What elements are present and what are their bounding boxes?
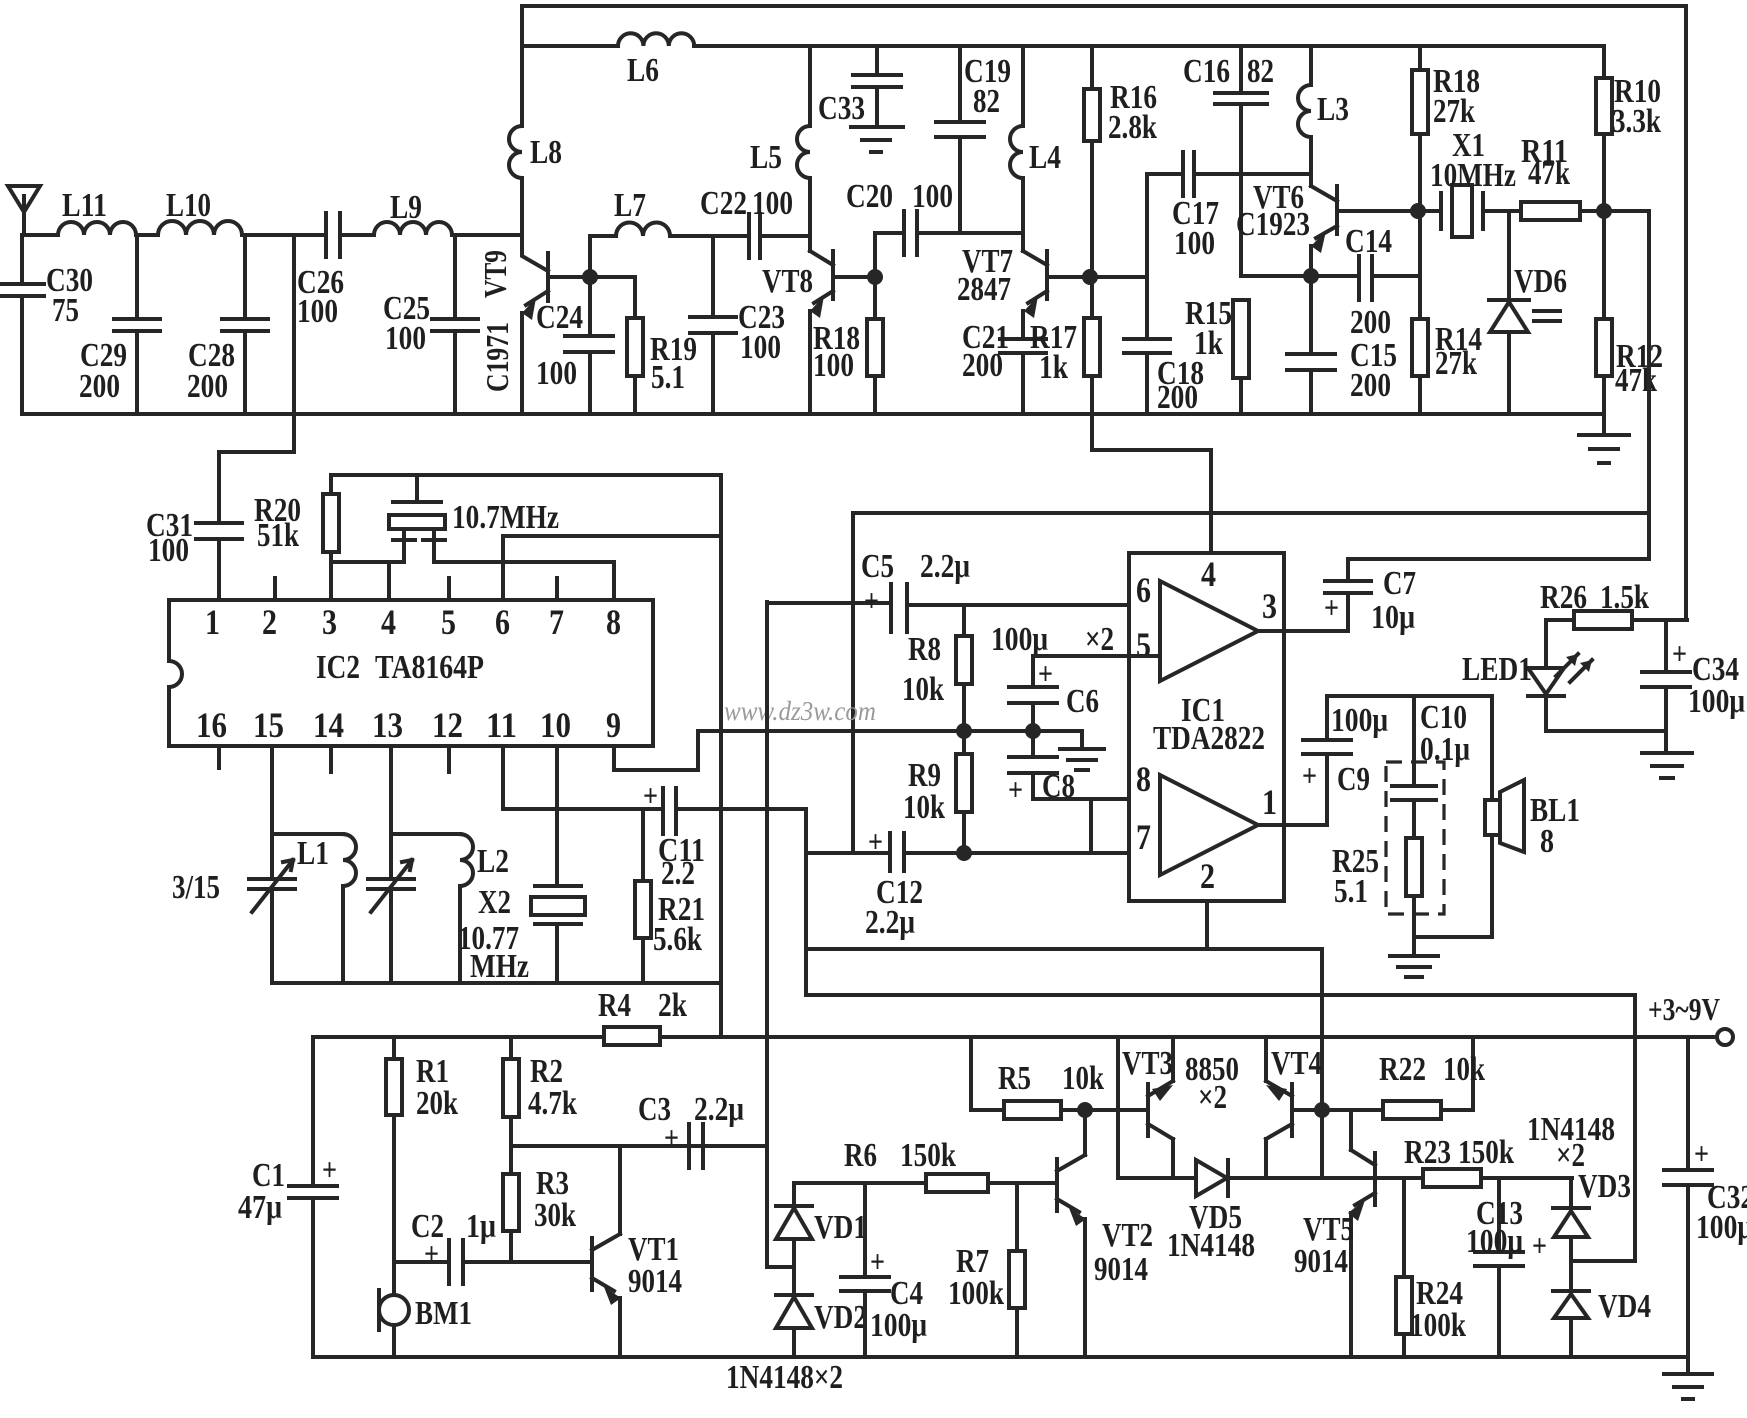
capacitor C1 — [289, 1186, 337, 1357]
svg-text:10MHz: 10MHz — [1430, 157, 1516, 194]
svg-text:VD1: VD1 — [814, 1209, 867, 1246]
inductor L8 — [509, 126, 522, 178]
svg-text:IC2: IC2 — [316, 649, 360, 686]
wire bottom rail — [313, 1355, 1688, 1359]
svg-text:5.1: 5.1 — [651, 359, 685, 396]
svg-text:100μ: 100μ — [1331, 702, 1388, 739]
svg-text:2.2μ: 2.2μ — [920, 548, 970, 585]
capacitor C21 — [1000, 339, 1046, 414]
inductor L5 — [797, 46, 810, 251]
capacitor C19 — [936, 46, 984, 233]
transistor VT4 — [1266, 1037, 1322, 1178]
svg-text:8: 8 — [1540, 823, 1554, 860]
svg-text:C5: C5 — [861, 548, 894, 585]
svg-text:150k: 150k — [1458, 1134, 1514, 1171]
svg-text:30k: 30k — [534, 1197, 576, 1234]
capacitor C4 — [841, 1183, 889, 1357]
svg-text:R22: R22 — [1379, 1051, 1426, 1088]
node VT6 emitter — [1303, 268, 1319, 284]
capacitor C25 — [432, 235, 478, 414]
svg-text:+: + — [1532, 1227, 1547, 1263]
svg-text:1k: 1k — [1194, 325, 1223, 362]
svg-text:10k: 10k — [903, 789, 945, 826]
svg-text:100: 100 — [752, 185, 793, 222]
terminal +3~9V — [1717, 1029, 1733, 1045]
wire C3 to diodes — [767, 602, 794, 1267]
capacitor C29 — [114, 235, 160, 414]
svg-text:+: + — [1694, 1135, 1709, 1171]
inductor L3 — [1298, 46, 1311, 186]
resistor R24 — [1402, 1178, 1406, 1357]
svg-text:L11: L11 — [62, 187, 107, 224]
wire R20 top rail — [331, 475, 721, 1037]
svg-text:7: 7 — [549, 602, 564, 642]
inductor L7 — [590, 236, 749, 277]
transistor VT9 — [522, 178, 590, 305]
svg-text:×2: ×2 — [1556, 1137, 1585, 1174]
capacitor C6 — [1009, 656, 1057, 731]
svg-text:1: 1 — [1262, 782, 1277, 822]
node VT4 base — [1314, 1102, 1330, 1118]
node VT7 base — [1082, 269, 1098, 285]
tank L2 with trimmer — [368, 746, 414, 983]
capacitor C11 — [663, 788, 806, 834]
capacitor C10 — [1392, 696, 1436, 800]
tank L1 with trimmer — [249, 746, 295, 983]
transistor VT3 — [1118, 1037, 1173, 1178]
pin12 stub — [447, 746, 451, 772]
svg-text:1.5k: 1.5k — [1600, 579, 1649, 616]
svg-text:100k: 100k — [1410, 1307, 1466, 1344]
resistor R12 — [1602, 211, 1606, 414]
svg-text:100μ: 100μ — [1466, 1223, 1523, 1260]
svg-text:200: 200 — [1350, 367, 1391, 404]
wire VT1 collector row — [511, 1144, 767, 1148]
capacitor C12 — [806, 833, 1160, 871]
node C6 bottom — [1025, 723, 1041, 739]
transistor VT5 — [1322, 1110, 1375, 1205]
ground speaker — [1390, 937, 1438, 977]
node R11 right — [1596, 203, 1612, 219]
svg-text:2k: 2k — [658, 987, 687, 1024]
wire pin9 jog — [614, 731, 1082, 770]
IC1 TDA2822 — [1129, 553, 1284, 901]
pin2 stub — [273, 578, 277, 600]
svg-text:L2: L2 — [477, 843, 509, 880]
wire tank bottom rail — [272, 981, 721, 985]
svg-text:C22: C22 — [700, 185, 747, 222]
resistor R18 27k — [1418, 46, 1422, 211]
svg-text:2847: 2847 — [957, 271, 1011, 308]
svg-text:200: 200 — [1157, 379, 1198, 416]
svg-text:2.8k: 2.8k — [1108, 109, 1157, 146]
resistor R6 — [926, 1174, 988, 1192]
svg-text:4: 4 — [1201, 554, 1216, 594]
diode VD4 — [1553, 1261, 1589, 1357]
svg-text:+: + — [870, 1243, 885, 1279]
svg-text:10: 10 — [540, 705, 571, 745]
svg-text:100: 100 — [148, 532, 189, 569]
capacitor C3 — [689, 1124, 703, 1168]
svg-text:75: 75 — [52, 292, 79, 329]
svg-text:47μ: 47μ — [238, 1189, 282, 1226]
resistor R26 — [1546, 618, 1687, 622]
resistor R19 — [590, 277, 635, 414]
IC2 TA8164P — [169, 600, 653, 746]
svg-text:R23: R23 — [1404, 1134, 1451, 1171]
pin14 stub — [329, 746, 333, 772]
capacitor C15 — [1287, 276, 1335, 414]
svg-text:3: 3 — [1262, 586, 1277, 626]
svg-text:VD6: VD6 — [1514, 263, 1567, 300]
svg-text:9: 9 — [606, 705, 621, 745]
microphone BM1 — [392, 1262, 396, 1295]
svg-text:3: 3 — [322, 602, 337, 642]
svg-text:www.dz3w.com: www.dz3w.com — [724, 696, 876, 726]
svg-text:C14: C14 — [1345, 223, 1392, 260]
svg-text:+: + — [864, 582, 879, 618]
svg-text:5.6k: 5.6k — [653, 921, 702, 958]
capacitor C31 — [196, 523, 242, 600]
svg-text:27k: 27k — [1433, 93, 1475, 130]
svg-text:3/15: 3/15 — [172, 869, 220, 906]
resistor R15 — [1239, 378, 1243, 414]
resistor R14 — [1418, 211, 1422, 414]
inductor L10 — [158, 221, 242, 235]
svg-text:+: + — [1324, 589, 1339, 625]
svg-text:C33: C33 — [818, 90, 865, 127]
resistor R11 — [1521, 202, 1580, 220]
svg-text:+: + — [1008, 771, 1023, 807]
wire left border — [311, 1037, 315, 1186]
capacitor C2 — [394, 1240, 592, 1284]
svg-text:9014: 9014 — [628, 1263, 682, 1300]
resistor R17 — [1092, 277, 1211, 553]
svg-text:L10: L10 — [166, 187, 211, 224]
speaker BL1 — [1485, 800, 1500, 835]
svg-text:100: 100 — [1174, 225, 1215, 262]
svg-text:C9: C9 — [1337, 761, 1370, 798]
svg-text:20k: 20k — [416, 1085, 458, 1122]
capacitor C9 — [1303, 696, 1351, 825]
capacitor C13 — [1475, 1178, 1523, 1357]
capacitor C32 — [1664, 1037, 1712, 1357]
svg-text:14: 14 — [313, 705, 344, 745]
wire pin6 jog — [503, 536, 721, 600]
ground bottom right — [1664, 1357, 1712, 1399]
resistor R3 — [509, 1231, 513, 1262]
svg-text:100k: 100k — [948, 1275, 1004, 1312]
wire C31 feed — [219, 235, 294, 523]
svg-text:11: 11 — [486, 705, 517, 745]
crystal X1 — [1418, 193, 1521, 229]
diode VD6 — [1489, 211, 1529, 414]
svg-text:L6: L6 — [627, 52, 659, 89]
wire C12 feed — [804, 809, 808, 995]
resistor R16 — [1090, 46, 1094, 277]
capacitor C28 — [222, 235, 268, 414]
dashed box R25/C10 — [1386, 762, 1444, 914]
capacitor C26 — [326, 213, 340, 257]
svg-text:200: 200 — [79, 368, 120, 405]
svg-text:+: + — [1672, 635, 1687, 671]
svg-text:1N4148: 1N4148 — [1167, 1227, 1255, 1264]
svg-text:MHz: MHz — [470, 948, 529, 985]
transistor VT7 — [1023, 251, 1090, 303]
crystal X2 — [535, 746, 581, 983]
svg-text:TDA2822: TDA2822 — [1153, 720, 1265, 757]
svg-text:4.7k: 4.7k — [528, 1085, 577, 1122]
svg-text:2: 2 — [1200, 856, 1215, 896]
wire audio to output stage — [806, 949, 1322, 1178]
svg-text:C3: C3 — [638, 1091, 671, 1128]
svg-text:+: + — [643, 777, 658, 813]
svg-text:2.2μ: 2.2μ — [865, 904, 915, 941]
svg-text:8: 8 — [1136, 759, 1151, 799]
svg-text:R4: R4 — [598, 987, 631, 1024]
resistor R18 100 — [873, 277, 877, 414]
svg-text:L8: L8 — [530, 134, 562, 171]
svg-text:100: 100 — [813, 347, 854, 384]
svg-text:×2: ×2 — [1085, 621, 1114, 658]
svg-text:+: + — [868, 823, 883, 859]
svg-text:L5: L5 — [750, 139, 782, 176]
capacitor C22 — [749, 214, 809, 258]
svg-text:9014: 9014 — [1094, 1251, 1148, 1288]
wire VD1 top row — [794, 1181, 926, 1185]
svg-text:27k: 27k — [1435, 345, 1477, 382]
wire second rail left — [522, 6, 618, 126]
resistor R9 — [962, 731, 966, 853]
pin16 stub — [217, 746, 221, 768]
svg-text:VD2: VD2 — [814, 1299, 867, 1336]
svg-text:100: 100 — [912, 178, 953, 215]
antenna — [8, 186, 40, 235]
svg-text:51k: 51k — [257, 517, 299, 554]
wire pin5 — [1033, 654, 1160, 658]
capacitor C20 — [875, 211, 1023, 277]
svg-text:×2: ×2 — [1198, 1079, 1227, 1116]
svg-text:LED1: LED1 — [1462, 651, 1532, 688]
pin7 stub — [555, 578, 559, 600]
svg-text:C20: C20 — [846, 178, 893, 215]
svg-text:VT8: VT8 — [762, 263, 813, 300]
svg-text:12: 12 — [432, 705, 463, 745]
resistor R7 — [1015, 1183, 1019, 1357]
resistor R21 — [641, 809, 645, 983]
wire LED bottom — [1546, 729, 1666, 733]
wire pin8 jog — [1089, 799, 1093, 853]
resistor R4 — [604, 1027, 660, 1045]
svg-text:C6: C6 — [1066, 683, 1099, 720]
svg-text:BL1: BL1 — [1530, 792, 1580, 829]
capacitor C5 — [767, 584, 1160, 632]
wire speaker top — [1327, 696, 1492, 800]
svg-text:VT3: VT3 — [1122, 1045, 1173, 1082]
svg-text:VT4: VT4 — [1271, 1045, 1322, 1082]
svg-text:4: 4 — [381, 602, 396, 642]
diode VD2 — [776, 1267, 812, 1357]
svg-text:7: 7 — [1136, 817, 1151, 857]
wire to AGC right — [1604, 211, 1649, 559]
resistor R20 — [329, 475, 333, 600]
capacitor C14 — [1241, 256, 1420, 300]
svg-text:X2: X2 — [478, 884, 511, 921]
capacitor C7 — [1325, 559, 1371, 631]
svg-text:C7: C7 — [1383, 565, 1416, 602]
capacitor C8 — [1009, 731, 1160, 799]
resistor R2 — [509, 1037, 513, 1174]
svg-text:100μ: 100μ — [1688, 683, 1745, 720]
pin5 stub — [447, 578, 451, 600]
svg-text:R8: R8 — [908, 631, 941, 668]
svg-text:BM1: BM1 — [415, 1295, 472, 1332]
svg-text:10μ: 10μ — [1371, 599, 1415, 636]
svg-text:47k: 47k — [1528, 155, 1570, 192]
resistor R23 — [1375, 1176, 1572, 1180]
wire pin1 out — [1258, 823, 1327, 827]
svg-text:C1971: C1971 — [479, 322, 515, 392]
wire RF ground rail — [22, 412, 1604, 416]
transistor VT6 — [1311, 186, 1418, 238]
ground RF right — [1579, 414, 1629, 463]
inductor L4 — [1010, 46, 1023, 251]
resistor R1 — [392, 1037, 396, 1262]
svg-text:100: 100 — [740, 329, 781, 366]
wire filter bottom right to pin8 — [434, 562, 614, 600]
inductor L6 — [618, 33, 694, 46]
wire long feedback — [853, 511, 1649, 515]
svg-text:10k: 10k — [1062, 1060, 1104, 1097]
svg-text:3.3k: 3.3k — [1612, 103, 1661, 140]
diode VD3 — [1553, 1178, 1635, 1261]
svg-text:82: 82 — [1247, 53, 1274, 90]
node VT8 base — [867, 269, 883, 285]
svg-text:13: 13 — [372, 705, 403, 745]
svg-text:10.7MHz: 10.7MHz — [452, 499, 559, 536]
capacitor C33 — [853, 46, 901, 127]
resistor R22 — [1322, 1037, 1473, 1110]
svg-text:15: 15 — [253, 705, 284, 745]
node VT6 base X1 — [1410, 203, 1426, 219]
LED LED1 — [1528, 620, 1564, 731]
resistor R5 — [971, 1037, 1148, 1110]
svg-text:10k: 10k — [1443, 1051, 1485, 1088]
node VT9 base — [582, 269, 598, 285]
svg-text:82: 82 — [973, 83, 1000, 120]
svg-text:R6: R6 — [844, 1137, 877, 1174]
inductor L9 — [374, 222, 452, 235]
capacitor C18 — [1124, 277, 1170, 414]
ground C34 — [1642, 731, 1692, 778]
ground small near C8 — [1060, 731, 1104, 770]
resistor R25 — [1412, 800, 1416, 937]
wire mute line — [806, 995, 1635, 1261]
svg-text:1N4148×2: 1N4148×2 — [726, 1359, 843, 1396]
wire second rail right — [694, 44, 1604, 48]
svg-text:100μ: 100μ — [870, 1307, 927, 1344]
capacitor C24 — [565, 277, 613, 414]
svg-text:6: 6 — [1136, 570, 1151, 610]
node R9 bottom — [956, 845, 972, 861]
svg-text:VD4: VD4 — [1598, 1288, 1651, 1325]
svg-text:L7: L7 — [614, 187, 646, 224]
transistor VT2 — [1057, 1110, 1085, 1212]
diode VD1 — [776, 1183, 812, 1267]
wire RF input chain — [22, 233, 522, 237]
wire mid junction vertical — [851, 513, 855, 853]
transistor VT1 — [592, 1146, 620, 1291]
svg-text:8: 8 — [606, 602, 621, 642]
svg-text:R26: R26 — [1540, 579, 1587, 616]
svg-text:VT2: VT2 — [1102, 1217, 1153, 1254]
svg-text:100: 100 — [536, 355, 577, 392]
svg-text:R5: R5 — [998, 1060, 1031, 1097]
svg-text:C16: C16 — [1183, 53, 1230, 90]
svg-text:5: 5 — [441, 602, 456, 642]
svg-text:+: + — [1038, 655, 1053, 691]
svg-text:2.2μ: 2.2μ — [694, 1091, 744, 1128]
diode VD5 — [1118, 1160, 1322, 1196]
wire filter bottom left — [331, 562, 404, 600]
svg-text:2.2: 2.2 — [661, 855, 695, 892]
svg-text:L3: L3 — [1317, 91, 1349, 128]
svg-text:1: 1 — [205, 602, 220, 642]
wire C7 top — [1348, 513, 1649, 559]
svg-text:+3~9V: +3~9V — [1648, 991, 1720, 1027]
svg-text:100μ: 100μ — [991, 621, 1048, 658]
svg-text:+: + — [1302, 757, 1317, 793]
wire supply rail — [313, 1035, 1718, 1039]
svg-text:9014: 9014 — [1294, 1243, 1348, 1280]
svg-text:L4: L4 — [1029, 139, 1061, 176]
svg-text:100μ: 100μ — [1696, 1209, 1747, 1246]
svg-text:2: 2 — [262, 602, 277, 642]
resistor R8 — [962, 605, 966, 731]
svg-text:C24: C24 — [536, 299, 583, 336]
svg-text:100: 100 — [297, 293, 338, 330]
svg-text:1μ: 1μ — [466, 1208, 496, 1245]
svg-text:100: 100 — [385, 320, 426, 357]
svg-text:VD3: VD3 — [1578, 1168, 1631, 1205]
wire pin11 to C11 — [503, 746, 663, 809]
svg-text:5: 5 — [1136, 625, 1151, 665]
svg-text:5.1: 5.1 — [1334, 873, 1368, 910]
svg-text:L9: L9 — [390, 189, 422, 226]
svg-text:VT9: VT9 — [477, 250, 513, 298]
ceramic filter 10.7MHz — [389, 515, 445, 529]
svg-text:200: 200 — [187, 368, 228, 405]
wire top rail — [522, 6, 1686, 620]
capacitor C16 — [1215, 46, 1267, 276]
svg-text:200: 200 — [1350, 304, 1391, 341]
svg-text:10k: 10k — [902, 671, 944, 708]
svg-text:+: + — [322, 1151, 337, 1187]
svg-text:16: 16 — [196, 705, 227, 745]
svg-text:150k: 150k — [900, 1137, 956, 1174]
svg-text:C8: C8 — [1042, 768, 1075, 805]
svg-text:C1923: C1923 — [1236, 206, 1310, 243]
wire pin3 out — [1258, 629, 1348, 633]
svg-text:1k: 1k — [1039, 349, 1068, 386]
svg-text:TA8164P: TA8164P — [375, 649, 484, 686]
svg-text:6: 6 — [495, 602, 510, 642]
capacitor C34 — [1642, 620, 1690, 731]
inductor L11 — [58, 222, 136, 235]
resistor R10 — [1602, 46, 1606, 211]
svg-text:200: 200 — [962, 347, 1003, 384]
capacitor C23 — [690, 236, 736, 414]
